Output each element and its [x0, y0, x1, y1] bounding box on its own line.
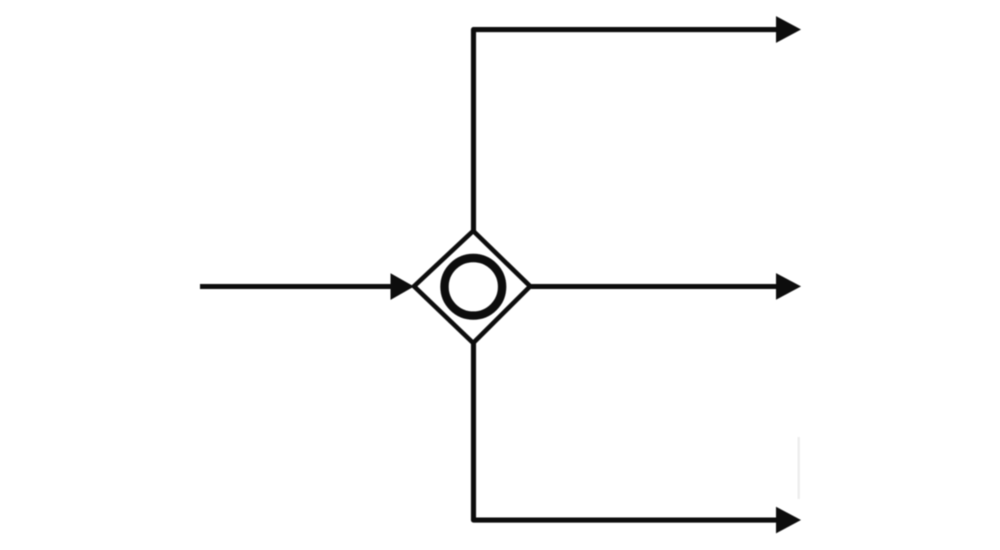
- wire: bottom branch (vertical + horizontal): [474, 341, 779, 520]
- arrowhead: middle branch: [776, 273, 801, 300]
- arrowhead: input flow into gateway: [391, 273, 415, 300]
- scan artifact: faint vertical smudge right side: [798, 437, 800, 499]
- wire: input flow line: [200, 284, 392, 289]
- arrowhead: top branch: [776, 16, 801, 43]
- arrowhead: bottom branch: [776, 507, 801, 534]
- gateway U1: inner circle marker: [445, 258, 503, 316]
- wire: top branch (vertical + horizontal): [474, 30, 779, 232]
- wire: middle branch: [531, 284, 778, 289]
- gateway U1: inclusive gateway diamond: [414, 231, 530, 343]
